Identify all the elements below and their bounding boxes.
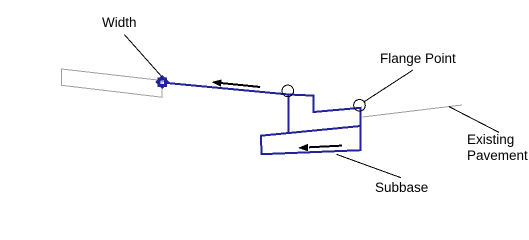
leader: Subbase bbox=[337, 154, 401, 177]
leader: Width bbox=[124, 34, 162, 76]
node: circle at flange point bbox=[354, 100, 366, 112]
label: Subbase bbox=[375, 180, 428, 196]
wire: vertical from width point down to subbase bbox=[288, 95, 290, 134]
leader: Existing Pavement bbox=[449, 107, 499, 133]
arrow: direction on surface (points left) bbox=[212, 79, 261, 87]
wire: proposed surface polyline (blue) bbox=[163, 83, 361, 151]
label: Flange Point bbox=[380, 51, 456, 67]
subbase quad (blue) bbox=[261, 126, 361, 154]
label: Existing Pavement bbox=[467, 132, 528, 164]
node: width point marker (blue octagram) bbox=[155, 75, 169, 89]
label: Width bbox=[102, 15, 137, 31]
leader: Flange Point bbox=[365, 70, 414, 102]
node: circle at width vertex bbox=[282, 85, 294, 97]
existing ground line (grey, right) bbox=[363, 105, 463, 117]
arrow: direction on subbase (points left) bbox=[298, 144, 342, 152]
existing pavement outline (grey quad, left) bbox=[62, 69, 162, 97]
